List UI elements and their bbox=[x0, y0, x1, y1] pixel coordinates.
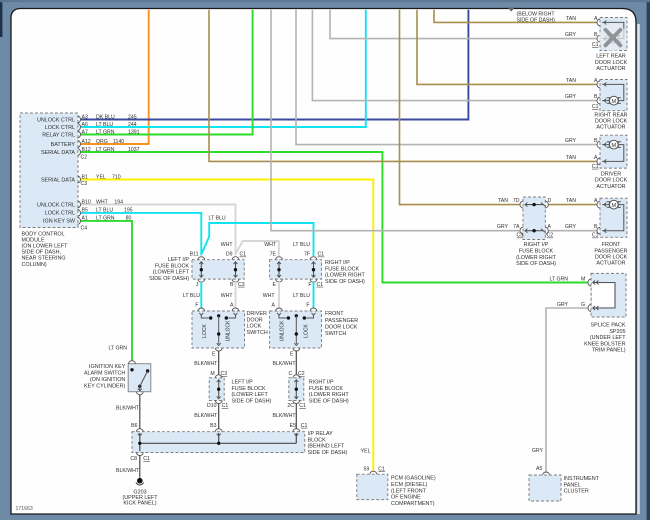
svg-text:B: B bbox=[230, 282, 234, 288]
svg-text:GRY: GRY bbox=[565, 32, 577, 38]
wire LT BLU branch B11 to fuse block 7F bbox=[202, 223, 314, 256]
body control module BCM dashed box bbox=[20, 113, 78, 228]
svg-text:WHT: WHT bbox=[263, 293, 276, 299]
driver door lock actuator bbox=[600, 135, 627, 168]
svg-text:ECM (DIESEL): ECM (DIESEL) bbox=[391, 482, 427, 488]
wire GRY fuse block A to front passenger actuator B bbox=[548, 230, 597, 232]
svg-text:LEFT I/P: LEFT I/P bbox=[168, 257, 190, 263]
svg-text:UNLOCK: UNLOCK bbox=[280, 320, 286, 342]
svg-text:SIDE OF DASH): SIDE OF DASH) bbox=[308, 450, 348, 456]
svg-text:J: J bbox=[196, 282, 199, 288]
page right light gap strip bbox=[637, 24, 640, 514]
svg-text:GRY: GRY bbox=[497, 224, 509, 230]
svg-text:C1: C1 bbox=[299, 403, 306, 409]
svg-text:DOOR LOCK: DOOR LOCK bbox=[595, 60, 628, 66]
svg-text:DRIVER: DRIVER bbox=[247, 311, 267, 317]
right I/P fuse block mid dashed box bbox=[523, 197, 545, 240]
passenger switch pole bbox=[295, 314, 298, 317]
wire BLK/WHT relay block C8 to ground bbox=[139, 456, 141, 478]
svg-text:E5: E5 bbox=[290, 423, 296, 429]
wire GRY to right fuse block 7A bbox=[271, 10, 520, 231]
svg-text:B6: B6 bbox=[131, 423, 137, 429]
wire BLK/WHT passenger switch E down bbox=[295, 351, 297, 374]
fuse block internal line B11-J bbox=[200, 262, 202, 278]
svg-text:E: E bbox=[290, 352, 294, 358]
PCM pin arc bbox=[370, 471, 377, 474]
pin arcs upper right fuse block bbox=[276, 257, 283, 260]
svg-text:A7: A7 bbox=[82, 129, 88, 135]
svg-text:CLUSTER: CLUSTER bbox=[564, 489, 589, 495]
svg-text:C: C bbox=[289, 371, 293, 377]
svg-text:B1: B1 bbox=[82, 174, 88, 180]
svg-text:FUSE BLOCK: FUSE BLOCK bbox=[232, 386, 267, 392]
svg-text:KNEE BOLSTER: KNEE BOLSTER bbox=[584, 341, 625, 347]
svg-text:A3: A3 bbox=[82, 114, 88, 120]
svg-text:M: M bbox=[581, 276, 585, 282]
svg-text:C4: C4 bbox=[81, 225, 88, 231]
left I/P fuse block lower dashed box bbox=[209, 378, 224, 401]
svg-text:YEL: YEL bbox=[96, 174, 106, 180]
driver switch pin arcs F and A bbox=[198, 308, 205, 311]
svg-text:LT BLU: LT BLU bbox=[293, 242, 310, 248]
svg-text:B11: B11 bbox=[190, 252, 199, 258]
splice pack pin G bbox=[588, 305, 591, 312]
svg-text:7D: 7D bbox=[513, 198, 520, 204]
svg-text:FUSE BLOCK: FUSE BLOCK bbox=[519, 249, 554, 255]
svg-text:SIDE OF DASH): SIDE OF DASH) bbox=[232, 398, 272, 404]
svg-text:7A: 7A bbox=[513, 224, 520, 230]
svg-text:195: 195 bbox=[124, 208, 133, 214]
svg-text:ACTUATOR: ACTUATOR bbox=[596, 66, 625, 72]
instrument panel cluster dashed box bbox=[529, 475, 561, 501]
wire WHT B to driver switch A bbox=[235, 282, 237, 308]
svg-text:E: E bbox=[273, 282, 277, 288]
svg-text:LT GRN: LT GRN bbox=[96, 129, 115, 135]
svg-text:SIDE OF DASH): SIDE OF DASH) bbox=[309, 398, 349, 404]
svg-text:SIDE OF DASH): SIDE OF DASH) bbox=[325, 279, 365, 285]
left I/P fuse block upper dashed box bbox=[192, 260, 244, 279]
svg-text:C2: C2 bbox=[547, 233, 554, 239]
svg-text:RIGHT REAR: RIGHT REAR bbox=[594, 112, 627, 118]
svg-text:YEL: YEL bbox=[361, 449, 371, 455]
fuse block internal line D9-B bbox=[235, 262, 237, 278]
wire GRY to left rear door lock actuator B bbox=[330, 10, 597, 39]
svg-text:ORG: ORG bbox=[96, 139, 108, 145]
svg-text:SP205: SP205 bbox=[609, 329, 625, 335]
svg-text:DRIVER: DRIVER bbox=[601, 172, 621, 178]
fuse block internal line 7F-F bbox=[313, 262, 315, 278]
svg-text:C1: C1 bbox=[317, 282, 324, 288]
svg-text:UNLOCK CTRL: UNLOCK CTRL bbox=[37, 117, 75, 123]
driver switch pole bbox=[217, 314, 220, 317]
dark navy strip right edge bbox=[647, 0, 650, 520]
svg-text:GRY: GRY bbox=[565, 138, 577, 144]
svg-text:TAN: TAN bbox=[566, 78, 576, 84]
internal line 7A-A bbox=[525, 230, 544, 232]
svg-text:LOCK: LOCK bbox=[247, 324, 262, 330]
svg-text:LT BLU: LT BLU bbox=[96, 208, 113, 214]
svg-text:LOCK: LOCK bbox=[202, 324, 208, 338]
svg-text:LT GRN: LT GRN bbox=[108, 346, 127, 352]
svg-text:59: 59 bbox=[364, 466, 370, 472]
svg-text:B10: B10 bbox=[82, 199, 91, 205]
fuse internal line bbox=[295, 380, 297, 400]
svg-text:A12: A12 bbox=[82, 139, 91, 145]
passenger switch pin arcs A and F bbox=[276, 308, 283, 311]
svg-text:WHT: WHT bbox=[221, 242, 234, 248]
wire BLK/WHT driver switch E down bbox=[218, 351, 220, 374]
svg-text:TRIM PANEL): TRIM PANEL) bbox=[592, 348, 626, 354]
wire WHT branch D9 to fuse block 7E bbox=[236, 241, 279, 256]
wire BLK/WHT to relay block E5 bbox=[295, 404, 297, 429]
wire TAN to right fuse block 7D bbox=[400, 10, 521, 205]
svg-text:LEFT I/P: LEFT I/P bbox=[232, 380, 254, 386]
svg-text:C1: C1 bbox=[143, 456, 150, 462]
svg-text:1140: 1140 bbox=[113, 139, 124, 145]
svg-text:M: M bbox=[210, 371, 214, 377]
driver switch pin E bbox=[215, 348, 222, 351]
svg-text:G: G bbox=[581, 302, 585, 308]
svg-text:DOOR: DOOR bbox=[247, 317, 263, 323]
svg-text:FRONT: FRONT bbox=[325, 311, 344, 317]
svg-text:FUSE BLOCK: FUSE BLOCK bbox=[155, 263, 190, 269]
wire LT BLU J to driver switch F bbox=[200, 282, 202, 308]
svg-text:C1: C1 bbox=[592, 164, 599, 170]
svg-text:A: A bbox=[594, 198, 598, 204]
svg-text:LT BLU: LT BLU bbox=[293, 293, 310, 299]
svg-text:C1: C1 bbox=[318, 252, 325, 258]
pin arcs upper left fuse block bbox=[198, 257, 205, 260]
svg-text:UNLOCK CTRL: UNLOCK CTRL bbox=[37, 202, 75, 208]
wire GRY splice pack G to instrument panel cluster A5 bbox=[546, 308, 588, 472]
fuse internal line bbox=[218, 380, 220, 400]
svg-text:PASSENGER: PASSENGER bbox=[594, 248, 627, 254]
svg-text:(LOWER LEFT: (LOWER LEFT bbox=[153, 270, 190, 276]
svg-text:BLK/WHT: BLK/WHT bbox=[273, 413, 297, 419]
wire BLK/WHT ignition switch to relay block B6 bbox=[139, 395, 141, 429]
right I/P fuse block lower dashed box bbox=[289, 378, 304, 401]
svg-text:DOOR LOCK: DOOR LOCK bbox=[595, 118, 628, 124]
svg-text:C8: C8 bbox=[130, 456, 137, 462]
svg-text:WHT: WHT bbox=[264, 242, 277, 248]
splice pack SP205 dashed box bbox=[591, 273, 626, 317]
svg-text:ACTUATOR: ACTUATOR bbox=[596, 125, 625, 131]
driver switch contacts bbox=[201, 316, 209, 319]
svg-text:LT BLU: LT BLU bbox=[209, 216, 226, 222]
wire LT BLU 195 lock ctrl B5 to fuse block B11 bbox=[81, 213, 202, 256]
ignition switch contacts bbox=[130, 368, 133, 371]
svg-text:245: 245 bbox=[128, 114, 137, 120]
svg-text:(UNDER LEFT: (UNDER LEFT bbox=[590, 335, 626, 341]
svg-text:171663: 171663 bbox=[16, 506, 33, 512]
svg-text:C3: C3 bbox=[81, 181, 88, 187]
svg-text:B5: B5 bbox=[82, 208, 88, 214]
cluster pin arc bbox=[543, 472, 550, 475]
top band highlight bbox=[0, 0, 650, 2]
svg-text:LT BLU: LT BLU bbox=[96, 122, 113, 128]
right I/P fuse block upper dashed box bbox=[270, 260, 322, 279]
svg-text:(LOWER RIGHT: (LOWER RIGHT bbox=[325, 273, 366, 279]
svg-text:LOCK: LOCK bbox=[303, 324, 309, 338]
svg-text:TAN: TAN bbox=[498, 198, 508, 204]
svg-text:I/P RELAY: I/P RELAY bbox=[308, 431, 334, 437]
svg-text:A1: A1 bbox=[82, 216, 88, 222]
wire GRY to right rear door lock actuator B bbox=[312, 10, 597, 101]
svg-text:C1: C1 bbox=[240, 252, 247, 258]
svg-text:2C: 2C bbox=[287, 403, 294, 409]
svg-text:C1: C1 bbox=[592, 42, 599, 48]
svg-text:SWITCH: SWITCH bbox=[247, 330, 268, 336]
svg-text:B: B bbox=[594, 94, 598, 100]
svg-text:1391: 1391 bbox=[128, 129, 140, 135]
svg-text:C1: C1 bbox=[301, 423, 308, 429]
svg-text:KEY CYLINDER): KEY CYLINDER) bbox=[84, 383, 125, 389]
svg-text:TAN: TAN bbox=[566, 198, 576, 204]
splice pack pin M bbox=[588, 279, 591, 286]
svg-text:(LOWER RIGHT: (LOWER RIGHT bbox=[516, 255, 557, 261]
svg-text:B3: B3 bbox=[210, 423, 216, 429]
svg-text:1037: 1037 bbox=[128, 147, 140, 153]
right rear door lock actuator bbox=[600, 80, 627, 111]
fuse block internal line 7E-E bbox=[278, 262, 280, 278]
dark navy corner block top-left bbox=[0, 0, 2, 37]
svg-text:PCM (GASOLINE): PCM (GASOLINE) bbox=[391, 476, 436, 482]
svg-text:DOOR LOCK: DOOR LOCK bbox=[595, 178, 628, 184]
svg-text:SIDE OF DASH): SIDE OF DASH) bbox=[517, 17, 556, 23]
svg-text:GRY: GRY bbox=[565, 94, 577, 100]
svg-text:M: M bbox=[611, 203, 616, 209]
svg-text:KICK PANEL): KICK PANEL) bbox=[123, 500, 156, 506]
svg-text:(ON IGNITION: (ON IGNITION bbox=[90, 377, 125, 383]
svg-text:BLOCK: BLOCK bbox=[308, 437, 327, 443]
svg-text:710: 710 bbox=[112, 174, 121, 180]
wire TAN fuse block D to front passenger actuator A bbox=[548, 204, 597, 206]
svg-text:A: A bbox=[230, 302, 234, 308]
front passenger door lock actuator bbox=[600, 198, 627, 237]
svg-text:OF ENGINE: OF ENGINE bbox=[391, 495, 421, 501]
svg-text:PASSENGER: PASSENGER bbox=[325, 318, 358, 324]
svg-text:ACTUATOR: ACTUATOR bbox=[596, 184, 625, 190]
svg-text:(LEFT FRONT: (LEFT FRONT bbox=[391, 488, 427, 494]
wire ORG 1140 battery A12 bbox=[81, 10, 149, 144]
svg-text:IGN KEY SW: IGN KEY SW bbox=[43, 219, 76, 225]
ignition key alarm switch box bbox=[128, 364, 151, 392]
svg-text:7F: 7F bbox=[304, 252, 310, 258]
wire BLK/WHT to relay block B3 bbox=[218, 404, 220, 429]
svg-text:LT GRN: LT GRN bbox=[96, 216, 115, 222]
svg-text:LOCK CTRL: LOCK CTRL bbox=[45, 125, 75, 131]
svg-text:A: A bbox=[594, 16, 598, 22]
svg-text:D9: D9 bbox=[226, 252, 233, 258]
svg-text:SPLICE PACK: SPLICE PACK bbox=[591, 323, 626, 329]
front passenger door lock switch dashed box bbox=[270, 311, 322, 348]
svg-text:SERIAL DATA: SERIAL DATA bbox=[41, 177, 75, 183]
splice pack inner white area bbox=[592, 283, 615, 307]
svg-text:SWITCH: SWITCH bbox=[325, 331, 346, 337]
svg-text:RIGHT I/P: RIGHT I/P bbox=[524, 242, 549, 248]
svg-text:PANEL: PANEL bbox=[564, 482, 581, 488]
svg-text:DOOR LOCK: DOOR LOCK bbox=[325, 324, 358, 330]
wire LT GRN 1037 serial data B12 to splice pack bbox=[81, 152, 588, 283]
PCM dashed box bbox=[357, 474, 388, 499]
svg-text:COMPARTMENT): COMPARTMENT) bbox=[391, 501, 435, 507]
svg-text:D10: D10 bbox=[207, 403, 217, 409]
left rear door lock actuator bbox=[600, 18, 627, 51]
svg-text:C2: C2 bbox=[81, 155, 88, 161]
svg-text:F: F bbox=[306, 302, 309, 308]
svg-text:BATTERY: BATTERY bbox=[51, 142, 76, 148]
relay block internal bus bbox=[139, 433, 141, 451]
svg-text:UNLOCK: UNLOCK bbox=[226, 320, 232, 342]
svg-text:M: M bbox=[611, 143, 616, 149]
svg-text:B12: B12 bbox=[82, 147, 91, 153]
wire TAN to right rear door lock actuator A bbox=[417, 10, 597, 85]
svg-text:TAN: TAN bbox=[566, 155, 576, 161]
svg-text:7E: 7E bbox=[270, 252, 277, 258]
svg-text:ALARM SWITCH: ALARM SWITCH bbox=[84, 371, 125, 377]
svg-text:B: B bbox=[594, 138, 598, 144]
svg-text:B: B bbox=[594, 224, 598, 230]
svg-text:F: F bbox=[308, 282, 311, 288]
svg-text:F: F bbox=[195, 302, 198, 308]
svg-text:BLK/WHT: BLK/WHT bbox=[116, 468, 140, 474]
svg-text:C1: C1 bbox=[592, 233, 599, 239]
svg-text:B: B bbox=[594, 32, 598, 38]
svg-text:A: A bbox=[272, 302, 276, 308]
svg-text:LT BLU: LT BLU bbox=[183, 293, 200, 299]
svg-text:GRY: GRY bbox=[532, 448, 544, 454]
svg-text:DOOR LOCK: DOOR LOCK bbox=[595, 254, 628, 260]
svg-text:LT GRN: LT GRN bbox=[549, 276, 568, 282]
driver door lock switch dashed box bbox=[192, 311, 245, 348]
svg-text:FUSE BLOCK: FUSE BLOCK bbox=[325, 266, 360, 272]
svg-text:DK BLU: DK BLU bbox=[96, 114, 115, 120]
svg-text:(LOWER LEFT: (LOWER LEFT bbox=[232, 392, 269, 398]
cut-off connector marker top bbox=[509, 8, 514, 11]
wire YEL 710 serial data B1 to PCM bbox=[81, 180, 374, 472]
svg-text:194: 194 bbox=[114, 199, 123, 205]
relay block pin C8 bottom bbox=[136, 453, 143, 456]
svg-text:COLUMN): COLUMN) bbox=[22, 262, 47, 268]
svg-text:IGNITION KEY: IGNITION KEY bbox=[89, 364, 126, 370]
wire LT BLU 244 lock ctrl A6 bbox=[81, 10, 366, 127]
svg-text:C3: C3 bbox=[517, 233, 524, 239]
svg-text:SIDE OF DASH): SIDE OF DASH) bbox=[149, 276, 189, 282]
I/P relay block dashed box bbox=[132, 432, 305, 453]
svg-text:WHT: WHT bbox=[96, 199, 109, 205]
svg-text:GRY: GRY bbox=[565, 224, 577, 230]
svg-text:ACTUATOR: ACTUATOR bbox=[596, 261, 625, 267]
svg-text:M: M bbox=[611, 99, 616, 105]
svg-text:SERIAL DATA: SERIAL DATA bbox=[41, 150, 75, 156]
ground G203 symbol bbox=[137, 478, 143, 484]
svg-text:RIGHT I/P: RIGHT I/P bbox=[309, 380, 334, 386]
svg-text:BLK/WHT: BLK/WHT bbox=[194, 361, 218, 367]
svg-text:LOCK CTRL: LOCK CTRL bbox=[45, 211, 75, 217]
svg-text:A5: A5 bbox=[536, 466, 542, 472]
svg-text:(LOWER RIGHT: (LOWER RIGHT bbox=[309, 392, 350, 398]
svg-text:C1: C1 bbox=[378, 466, 385, 472]
svg-text:RIGHT I/P: RIGHT I/P bbox=[325, 260, 350, 266]
svg-text:RELAY CTRL: RELAY CTRL bbox=[42, 132, 75, 138]
svg-text:FRONT: FRONT bbox=[602, 242, 621, 248]
left rear actuator X deleted mark bbox=[599, 23, 627, 51]
wire TAN to driver door lock actuator A bbox=[209, 10, 597, 162]
svg-text:FUSE BLOCK: FUSE BLOCK bbox=[309, 386, 344, 392]
svg-text:BLK/WHT: BLK/WHT bbox=[116, 406, 140, 412]
passenger switch pin E bbox=[293, 348, 300, 351]
svg-text:C1: C1 bbox=[592, 104, 599, 110]
svg-text:TAN: TAN bbox=[566, 16, 576, 22]
svg-text:GRY: GRY bbox=[557, 302, 569, 308]
svg-text:SIDE OF DASH): SIDE OF DASH) bbox=[516, 261, 556, 267]
svg-text:80: 80 bbox=[126, 216, 132, 222]
svg-text:A: A bbox=[594, 78, 598, 84]
wire LT GRN 80 ign key sw A1 to ignition key alarm switch bbox=[81, 221, 132, 361]
wire LT GRN 1391 relay ctrl A7 bbox=[81, 10, 253, 135]
svg-text:INSTRUMENT: INSTRUMENT bbox=[564, 476, 600, 482]
wire WHT 194 unlock ctrl B10 to fuse block D9 bbox=[81, 205, 236, 256]
svg-text:LEFT REAR: LEFT REAR bbox=[596, 54, 626, 60]
svg-text:BLK/WHT: BLK/WHT bbox=[194, 413, 218, 419]
svg-text:WHT: WHT bbox=[221, 293, 234, 299]
svg-text:E: E bbox=[212, 352, 216, 358]
wire DK BLU 245 unlock ctrl A3 bbox=[81, 10, 469, 120]
internal line 7D-D bbox=[525, 204, 544, 206]
passenger switch contacts bbox=[279, 316, 287, 319]
relay block pin arcs top B6 B3 E5 bbox=[136, 429, 143, 432]
wire LT BLU F to passenger switch F bbox=[313, 282, 315, 308]
splice pack internal link bbox=[593, 283, 616, 309]
wire WHT E to passenger switch A bbox=[278, 282, 280, 308]
pin arcs mid fuse block bbox=[520, 201, 523, 208]
wire TAN to left rear door lock actuator A bbox=[434, 10, 597, 23]
svg-text:A6: A6 bbox=[82, 122, 88, 128]
svg-text:C3: C3 bbox=[238, 282, 245, 288]
svg-text:244: 244 bbox=[128, 122, 137, 128]
svg-text:A: A bbox=[594, 155, 598, 161]
wire GRY to driver door lock actuator B bbox=[296, 10, 597, 145]
svg-text:C1: C1 bbox=[222, 403, 229, 409]
svg-text:(BEHIND LEFT: (BEHIND LEFT bbox=[308, 444, 346, 450]
svg-text:BLK/WHT: BLK/WHT bbox=[273, 361, 297, 367]
svg-text:LT GRN: LT GRN bbox=[96, 147, 115, 153]
